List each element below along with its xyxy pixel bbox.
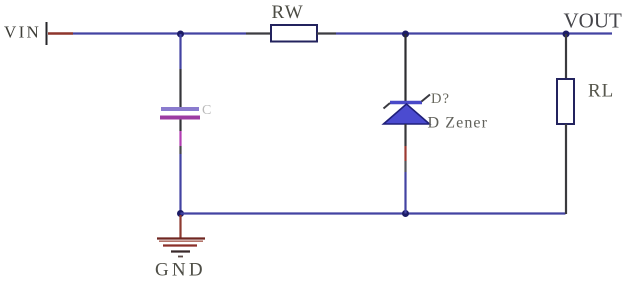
capacitor C top plate bbox=[161, 107, 199, 111]
wire capacitor top pin (dark) bbox=[179, 69, 181, 107]
wire cap lower magenta segment bbox=[179, 131, 181, 146]
wire zener top pin (dark) bbox=[404, 34, 406, 101]
capacitor C label bbox=[202, 103, 211, 118]
wire RL top pin (dark) bbox=[565, 34, 567, 79]
wire zener lower gray segment bbox=[404, 161, 406, 172]
wire zener lower blue segment bbox=[404, 172, 406, 214]
node A junction dot (cap branch, top) bbox=[177, 31, 184, 38]
ground bar 3 bbox=[171, 250, 190, 252]
diode designator label D? bbox=[431, 91, 450, 107]
ground bar 2 bbox=[163, 244, 197, 246]
node B junction dot (zener top) bbox=[402, 31, 409, 38]
wire RL bottom pin (dark, down to bottom rail corner) bbox=[565, 124, 567, 214]
net label VOUT bbox=[564, 9, 622, 33]
diode value label D Zener bbox=[428, 115, 489, 132]
wire left branch upper (node A down) bbox=[179, 34, 181, 69]
svg-text:C: C bbox=[202, 103, 211, 118]
capacitor C bottom plate bbox=[160, 116, 200, 120]
wire RW right pin bbox=[317, 32, 336, 34]
svg-text:RL: RL bbox=[588, 81, 614, 102]
svg-text:RW: RW bbox=[272, 2, 305, 23]
wire zener lower red segment bbox=[404, 146, 406, 161]
resistor RW value label bbox=[272, 2, 305, 23]
svg-text:VIN: VIN bbox=[4, 23, 41, 42]
node C junction dot (VOUT) bbox=[563, 31, 570, 38]
node D junction dot (ground) bbox=[177, 210, 184, 217]
wire left branch lower (blue to ground node) bbox=[179, 154, 181, 214]
svg-text:VOUT: VOUT bbox=[564, 9, 622, 33]
wire capacitor bottom pin (dark) bbox=[179, 120, 181, 132]
ground label GND bbox=[155, 260, 206, 281]
ground bar 4 (small mark) bbox=[178, 256, 183, 258]
wire zener bottom pin (dark) bbox=[404, 124, 406, 146]
ground bar 1 bbox=[157, 239, 205, 242]
svg-text:D Zener: D Zener bbox=[428, 115, 489, 132]
diode D? zener triangle bbox=[384, 104, 430, 124]
wire VIN pin (dark red) bbox=[48, 32, 73, 34]
resistor RW body bbox=[271, 25, 317, 42]
resistor RL label bbox=[588, 81, 614, 102]
svg-text:D?: D? bbox=[431, 91, 450, 107]
wire cap lower dark segment bbox=[179, 146, 181, 154]
port VIN terminal bar bbox=[46, 22, 48, 45]
svg-text:GND: GND bbox=[155, 260, 206, 281]
wire top rail left (VIN to RW) bbox=[73, 32, 246, 34]
diode D? zener cathode bar bbox=[384, 95, 431, 109]
port VIN label bbox=[4, 23, 41, 42]
wire RW left pin bbox=[246, 32, 272, 34]
wire top rail right (RW to VOUT) bbox=[336, 32, 612, 34]
node E junction dot (zener bottom) bbox=[402, 210, 409, 217]
ground stem (dark red) bbox=[179, 215, 181, 238]
wire bottom rail bbox=[181, 212, 566, 214]
resistor RL body bbox=[557, 79, 574, 124]
